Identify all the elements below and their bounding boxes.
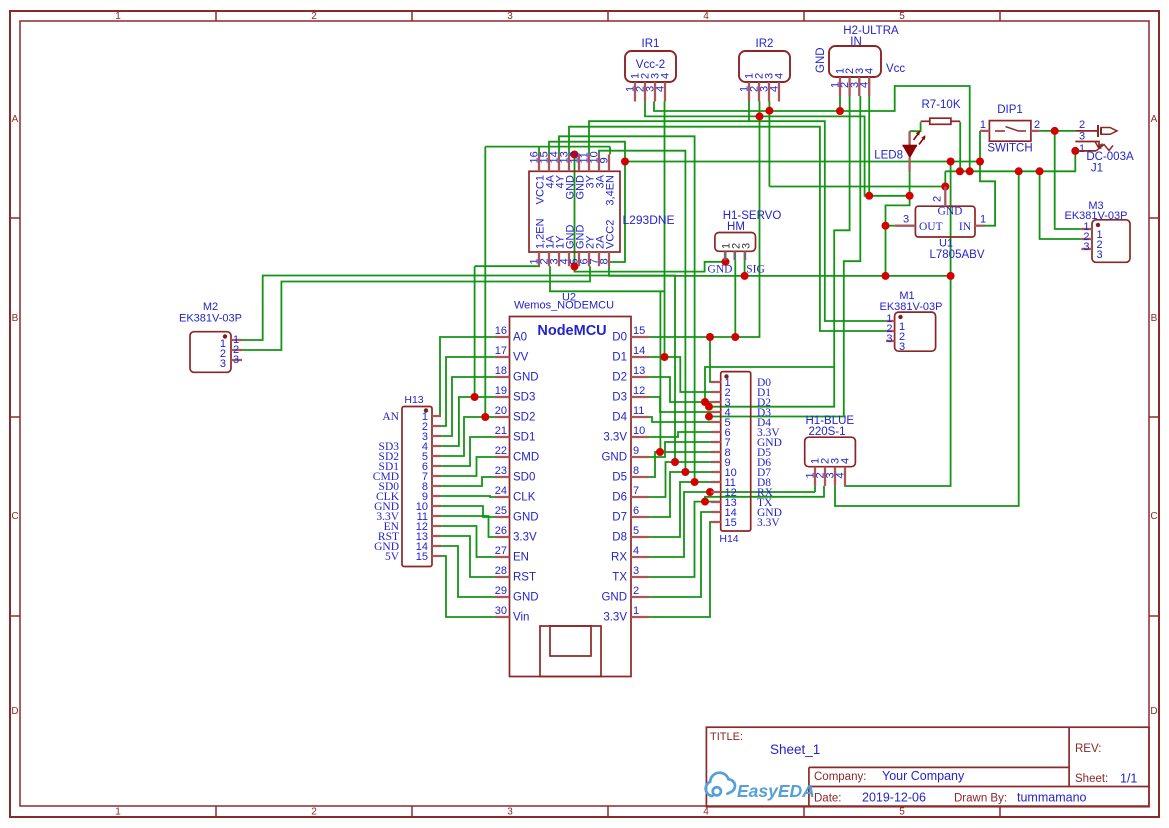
svg-text:26: 26 <box>495 525 507 537</box>
svg-text:4: 4 <box>660 73 672 79</box>
svg-text:3.3V: 3.3V <box>513 532 537 544</box>
connector J1 DC-003A barrel jack <box>1075 119 1134 175</box>
junction at 980,161.5 <box>976 158 984 166</box>
svg-text:3: 3 <box>233 354 239 366</box>
junction at 869.2,195.8 <box>865 192 873 200</box>
svg-text:4: 4 <box>835 472 847 478</box>
svg-text:3: 3 <box>740 243 752 249</box>
svg-text:LED8: LED8 <box>874 150 903 162</box>
svg-text:2: 2 <box>932 196 944 202</box>
svg-text:16: 16 <box>495 325 507 337</box>
svg-text:15: 15 <box>725 517 737 529</box>
wire: 3.3V row 2 <box>649 522 711 617</box>
junction at 685.4,472 <box>681 468 689 476</box>
svg-text:IN: IN <box>850 36 862 48</box>
svg-text:22: 22 <box>495 445 507 457</box>
junction at 1018.7,171.3 <box>1015 167 1023 175</box>
wire: L293 pin16 and pin9 rail with drop to SD2 <box>538 147 540 155</box>
svg-text:220S-1: 220S-1 <box>808 426 845 438</box>
svg-text:GND: GND <box>601 592 627 604</box>
wire: H13 pin 6 to U2 pin 21 <box>438 437 495 466</box>
connector H2-ULTRA ultrasonic header <box>815 25 905 96</box>
junction at 909.6,195.8 <box>906 192 914 200</box>
svg-text:SD3: SD3 <box>513 392 535 404</box>
wire: H13 pin 5 to U2 pin 20 <box>438 417 495 456</box>
svg-text:13: 13 <box>633 365 645 377</box>
junction at 725.5,261.8 <box>722 258 730 266</box>
junction at 474.6,397 <box>471 393 479 401</box>
svg-text:2: 2 <box>633 585 639 597</box>
wire: M3 pin2 to GND bus B <box>1040 171 1082 239</box>
svg-text:Date:: Date: <box>814 793 842 805</box>
wire: L293 internal GND link pins 13-12 bridge <box>574 155 576 267</box>
svg-text:GND: GND <box>708 264 733 276</box>
svg-text:C: C <box>1150 511 1157 522</box>
wire: H13 pin 10 to U2 pin 25 <box>438 506 495 517</box>
svg-text:3: 3 <box>633 565 639 577</box>
svg-text:24: 24 <box>495 485 507 497</box>
svg-text:HM: HM <box>727 221 745 233</box>
junction at 950.6,275.9 <box>947 272 955 280</box>
svg-text:DIP1: DIP1 <box>997 104 1023 116</box>
svg-text:D6: D6 <box>612 492 627 504</box>
IC L293DNE motor driver <box>529 151 675 266</box>
svg-text:GND: GND <box>513 372 539 384</box>
wire: H13 pin 4 to U2 pin 19 <box>438 397 495 446</box>
svg-text:SD2: SD2 <box>513 412 535 424</box>
wire: D3 <box>649 397 720 412</box>
junction at 485.3,417 <box>481 413 489 421</box>
wire: GND bus B <box>945 151 1075 171</box>
svg-text:D7: D7 <box>612 512 627 524</box>
svg-text:H14: H14 <box>719 533 738 545</box>
svg-text:NodeMCU: NodeMCU <box>537 323 606 339</box>
svg-text:4: 4 <box>864 68 876 74</box>
svg-text:10: 10 <box>633 425 645 437</box>
junction at 660,452 <box>656 448 664 456</box>
svg-text:EN: EN <box>513 552 529 564</box>
svg-text:GND: GND <box>938 206 963 218</box>
junction at 1054.7,130.9 <box>1051 127 1059 135</box>
svg-text:SD0: SD0 <box>513 472 535 484</box>
svg-text:SIG: SIG <box>746 264 765 276</box>
svg-text:J1: J1 <box>1091 163 1103 175</box>
wire: A-rail vertical down to L293 pin8 VCC2 <box>609 162 625 267</box>
wire: IR2 pin1 drop to 3Y rail <box>748 102 750 122</box>
svg-text:Company:: Company: <box>814 771 866 783</box>
svg-text:29: 29 <box>495 585 507 597</box>
svg-text:2: 2 <box>311 11 317 22</box>
svg-text:1: 1 <box>980 119 986 131</box>
svg-text:RX: RX <box>611 552 627 564</box>
wire: L293 pin15 rail to A-rail vertical <box>549 142 625 162</box>
svg-text:14: 14 <box>633 345 645 357</box>
junction at 574.5,266.5 <box>571 263 579 271</box>
wire: R7 right lead down to GND bus <box>959 122 961 171</box>
wire: D2 <box>649 377 711 402</box>
svg-text:1/1: 1/1 <box>1120 772 1137 786</box>
svg-text:D8: D8 <box>612 532 627 544</box>
wire: H13 pin 11 to U2 pin 26 <box>438 516 495 537</box>
junction at 1039.6,171.3 <box>1036 167 1044 175</box>
svg-text:2: 2 <box>1034 119 1040 131</box>
svg-text:EK381V-03P: EK381V-03P <box>179 313 242 325</box>
svg-text:VCC2: VCC2 <box>605 220 617 249</box>
junction at 885.5,275.9 <box>882 272 890 280</box>
wire: IR2 pin2 drop to Vcc bus <box>759 102 761 117</box>
wire: GND row <box>649 442 711 457</box>
svg-text:4: 4 <box>859 82 871 88</box>
wire: L293 pin11 3Y rail to M1 pin1 <box>589 121 886 321</box>
svg-text:3: 3 <box>507 807 513 818</box>
svg-text:1: 1 <box>1079 143 1085 155</box>
svg-text:H13: H13 <box>404 394 423 406</box>
wire: U1 pin3 OUT stub wire <box>886 225 895 227</box>
svg-text:Wemos_NODEMCU: Wemos_NODEMCU <box>514 300 614 312</box>
wire: L293 pin10 to H14 D7 column <box>599 151 685 472</box>
svg-text:EasyEDA: EasyEDA <box>737 781 815 801</box>
svg-text:27: 27 <box>495 545 507 557</box>
svg-text:Sheet_1: Sheet_1 <box>770 742 820 757</box>
svg-text:C: C <box>11 511 18 522</box>
junction at 709,406.7 <box>705 403 713 411</box>
junction at 710,337 <box>706 333 714 341</box>
wire: H13 pin 13 to U2 pin 28 <box>438 536 495 577</box>
svg-text:3: 3 <box>220 358 226 370</box>
regulator U1 L7805ABV <box>895 187 986 262</box>
wire: servo pin3 SIG down to 5V rail <box>744 260 746 276</box>
wire: U1 IN from A-rail via jack branch <box>980 162 995 226</box>
svg-text:4: 4 <box>655 86 667 92</box>
wire: rail P M2 pin1 to H14 pin9 column <box>242 276 675 463</box>
svg-text:5: 5 <box>899 11 905 22</box>
junction at 959.9,171.3 <box>956 167 964 175</box>
wire: D7 <box>649 472 711 517</box>
connector H1-BLUE 220S-1 <box>805 415 856 486</box>
svg-text:7: 7 <box>633 485 639 497</box>
svg-text:15: 15 <box>633 325 645 337</box>
wire: GND top bus from IR1 pin3 across to GND net B <box>654 86 970 171</box>
wire: 5V rail <box>609 266 951 276</box>
svg-text:1: 1 <box>633 605 639 617</box>
junction at 705,501.6 <box>701 498 709 506</box>
svg-text:1: 1 <box>980 214 986 226</box>
wire: LED8 bottom to U1 OUT and 5V rail <box>886 172 910 276</box>
svg-text:D: D <box>1150 706 1157 717</box>
svg-text:IN: IN <box>959 221 972 233</box>
junction at 950.6,161.5 <box>947 158 955 166</box>
wire: H14 row8 vertical <box>659 291 661 452</box>
wire: H13 pin 9 to U2 pin 24 <box>438 496 495 497</box>
svg-text:VV: VV <box>513 352 529 364</box>
svg-text:IR2: IR2 <box>756 38 774 50</box>
svg-text:D5: D5 <box>612 472 627 484</box>
svg-text:4: 4 <box>769 86 781 92</box>
wire: rail A to DIP switch pin1 <box>625 131 980 162</box>
svg-text:3.3V: 3.3V <box>603 432 627 444</box>
svg-text:A: A <box>1151 114 1158 125</box>
title block <box>706 727 1149 807</box>
connector M2 EK381V-03P <box>179 301 242 372</box>
wire: GND from L293 pin5 to servo pin1 <box>575 262 726 272</box>
svg-text:4: 4 <box>703 807 709 818</box>
svg-text:A: A <box>12 114 19 125</box>
wire: GND bus left from U1 pin2 <box>769 186 945 188</box>
svg-text:2: 2 <box>311 807 317 818</box>
wire: switch pin2 to DC jack pin2 <box>1040 130 1076 132</box>
wire: L293 pin14 rail to H14 D8 column <box>559 136 695 482</box>
svg-text:3: 3 <box>1097 249 1103 261</box>
IC U2 Wemos NodeMCU <box>495 292 649 677</box>
svg-text:TITLE:: TITLE: <box>710 731 743 743</box>
svg-text:SD1: SD1 <box>513 432 535 444</box>
svg-text:3: 3 <box>1083 241 1089 253</box>
junction at 574.5,154.5 <box>571 151 579 159</box>
svg-text:L293DNE: L293DNE <box>623 213 675 227</box>
svg-text:25: 25 <box>495 505 507 517</box>
svg-text:EK381V-03P: EK381V-03P <box>880 301 943 313</box>
svg-text:28: 28 <box>495 565 507 577</box>
svg-text:Vcc: Vcc <box>886 63 905 75</box>
connector IR2 <box>739 38 791 102</box>
svg-text:GND: GND <box>513 592 539 604</box>
wire: H13 pin 2 to U2 pin 17 <box>438 357 495 426</box>
svg-text:D0: D0 <box>612 332 627 344</box>
switch DIP1 <box>980 104 1040 155</box>
junction at 969.7,171.3 <box>966 167 974 175</box>
svg-text:D2: D2 <box>612 372 627 384</box>
resistor R7-10K <box>921 99 961 124</box>
wire: rail Q M2 pin2 to L293 pin6 <box>242 266 590 350</box>
wire: D4 <box>649 417 720 422</box>
wire: L293 pin1 to SD3 drop <box>474 266 476 397</box>
svg-text:M2: M2 <box>203 301 218 313</box>
svg-text:tummamano: tummamano <box>1017 791 1087 805</box>
wire: IR2 pin3 drop through GND bus down to U1 GND rail <box>768 102 770 187</box>
wire: Vcc bus from IR1 pin2 to 5V junction near LED <box>645 102 910 196</box>
wire: H1-BLUE pin3 to GND bus B <box>835 171 1019 506</box>
junction at 694.6,482 <box>691 478 699 486</box>
svg-text:CLK: CLK <box>513 492 536 504</box>
svg-text:Drawn By:: Drawn By: <box>954 793 1007 805</box>
svg-text:1: 1 <box>115 807 121 818</box>
EasyEDA logo <box>706 773 815 801</box>
svg-text:D1: D1 <box>612 352 627 364</box>
junction at 710,492 <box>706 488 714 496</box>
svg-text:Vin: Vin <box>513 612 529 624</box>
svg-text:3: 3 <box>903 214 909 226</box>
connector M1 EK381V-03P <box>880 290 943 353</box>
connector M3 EK381V-03P <box>1065 200 1131 262</box>
svg-text:3: 3 <box>507 11 513 22</box>
wire: RX row to H1-BLUE pin1 <box>649 492 815 557</box>
wire: H2-ULTRA pin4 Vcc drop to 5V junction <box>868 96 870 196</box>
svg-text:DC-003A: DC-003A <box>1086 151 1134 163</box>
svg-text:8: 8 <box>633 465 639 477</box>
svg-text:IR1: IR1 <box>642 38 660 50</box>
connector H1-SERVO HM <box>708 210 782 276</box>
svg-text:D3: D3 <box>612 392 627 404</box>
svg-text:4: 4 <box>774 73 786 79</box>
junction at 744.6,275.9 <box>741 272 749 280</box>
wire: IR1 pin4 long drop to rail joining L293 pin2 <box>550 102 665 292</box>
junction at 705,402 <box>701 398 709 406</box>
svg-text:L7805ABV: L7805ABV <box>930 249 985 261</box>
svg-text:2019-12-06: 2019-12-06 <box>862 791 926 805</box>
connector IR1 <box>625 38 677 102</box>
svg-text:3: 3 <box>899 341 905 353</box>
svg-text:5: 5 <box>633 525 639 537</box>
junction at 840,111 <box>836 107 844 115</box>
svg-text:9: 9 <box>599 157 611 163</box>
svg-text:GND: GND <box>513 512 539 524</box>
junction at 945.3,186.5 <box>941 183 949 191</box>
svg-text:2: 2 <box>1079 119 1085 131</box>
svg-text:Vcc-2: Vcc-2 <box>636 59 665 71</box>
wire: D5 <box>649 452 711 477</box>
junction at 1075.3,150.9 <box>1071 147 1079 155</box>
junction at 675,462 <box>671 458 679 466</box>
svg-text:15: 15 <box>416 551 428 563</box>
svg-text:AN: AN <box>382 411 399 423</box>
svg-text:D4: D4 <box>612 412 627 424</box>
svg-text:GND: GND <box>815 47 827 73</box>
svg-text:D: D <box>11 706 18 717</box>
svg-text:B: B <box>12 313 19 324</box>
wire: L293 pin13 rail to M1 pin2 <box>569 127 886 331</box>
wire: H13 pin 8 to U2 pin 23 <box>438 477 495 486</box>
svg-text:OUT: OUT <box>919 221 943 233</box>
wire: TX row to H1-BLUE pin2 <box>649 502 720 577</box>
wire: H13 pin 14 to U2 pin 29 <box>438 546 495 597</box>
LED8 <box>874 131 925 173</box>
svg-text:3.3V: 3.3V <box>757 517 780 529</box>
svg-text:A0: A0 <box>513 332 527 344</box>
wire: H13 pin 7 to U2 pin 22 <box>438 457 495 476</box>
svg-text:12: 12 <box>633 385 645 397</box>
svg-text:REV:: REV: <box>1075 743 1101 755</box>
svg-text:EK381V-03P: EK381V-03P <box>1065 210 1128 222</box>
svg-text:3.3V: 3.3V <box>603 612 627 624</box>
header H13 <box>373 394 441 567</box>
svg-text:5: 5 <box>899 807 905 818</box>
svg-text:CMD: CMD <box>513 452 539 464</box>
svg-text:TX: TX <box>612 572 627 584</box>
svg-text:4: 4 <box>633 545 639 557</box>
svg-text:18: 18 <box>495 365 507 377</box>
wire: servo pin2 down to D0 row <box>734 260 736 337</box>
svg-text:SWITCH: SWITCH <box>987 143 1032 155</box>
junction at 769.4,110.7 <box>765 107 773 115</box>
wire: H13 pin 12 to U2 pin 27 <box>438 526 495 557</box>
wire: GND row 2 <box>649 512 711 597</box>
svg-text:23: 23 <box>495 465 507 477</box>
svg-text:4: 4 <box>840 458 852 464</box>
svg-text:8: 8 <box>599 258 611 264</box>
svg-text:9: 9 <box>633 445 639 457</box>
svg-text:B: B <box>1151 313 1158 324</box>
svg-text:Sheet:: Sheet: <box>1075 773 1108 785</box>
wire: H2-ULTRA pin1 GND drop <box>839 96 841 111</box>
junction at 664.5,357 <box>661 353 669 361</box>
junction at 735.3,337 <box>731 333 739 341</box>
svg-text:3: 3 <box>886 333 892 345</box>
svg-text:1: 1 <box>115 11 121 22</box>
wire: D8 <box>649 482 711 537</box>
svg-text:5V: 5V <box>385 551 400 563</box>
svg-text:17: 17 <box>495 345 507 357</box>
wire: D6 <box>649 462 711 497</box>
header H14 <box>711 372 782 545</box>
svg-text:20: 20 <box>495 405 507 417</box>
junction at 709,416.6 <box>705 413 713 421</box>
svg-text:RST: RST <box>513 572 536 584</box>
svg-text:30: 30 <box>495 605 507 617</box>
svg-text:3,4EN: 3,4EN <box>605 175 617 206</box>
svg-text:21: 21 <box>495 425 507 437</box>
svg-text:GND: GND <box>601 452 627 464</box>
svg-text:R7-10K: R7-10K <box>922 99 961 111</box>
svg-text:19: 19 <box>495 385 507 397</box>
wire: H13 pin 15 to U2 pin 30 <box>438 556 495 617</box>
wire: H13 pin 1 to U2 pin 16 <box>438 337 495 416</box>
junction at 759.5,116.4 <box>756 112 764 120</box>
wire: 3.3V row <box>649 432 711 437</box>
wire: H1-BLUE pin4 up to A-rail <box>845 162 951 487</box>
svg-text:4: 4 <box>703 11 709 22</box>
junction at 885.5,225.7 <box>882 222 890 230</box>
wire: drop from switch-jack wire to M3 pin1 <box>1055 131 1082 229</box>
wire: D1 <box>649 357 711 392</box>
junction at 625,161.5 <box>621 158 629 166</box>
wire: H13 pin 3 to U2 pin 18 <box>438 377 495 436</box>
svg-text:Your Company: Your Company <box>882 769 965 783</box>
svg-text:11: 11 <box>633 405 644 417</box>
wire: D0 <box>649 337 711 382</box>
svg-text:6: 6 <box>633 505 639 517</box>
svg-text:U1: U1 <box>939 238 953 250</box>
wire: R7 left lead to LED8 top <box>910 122 921 131</box>
